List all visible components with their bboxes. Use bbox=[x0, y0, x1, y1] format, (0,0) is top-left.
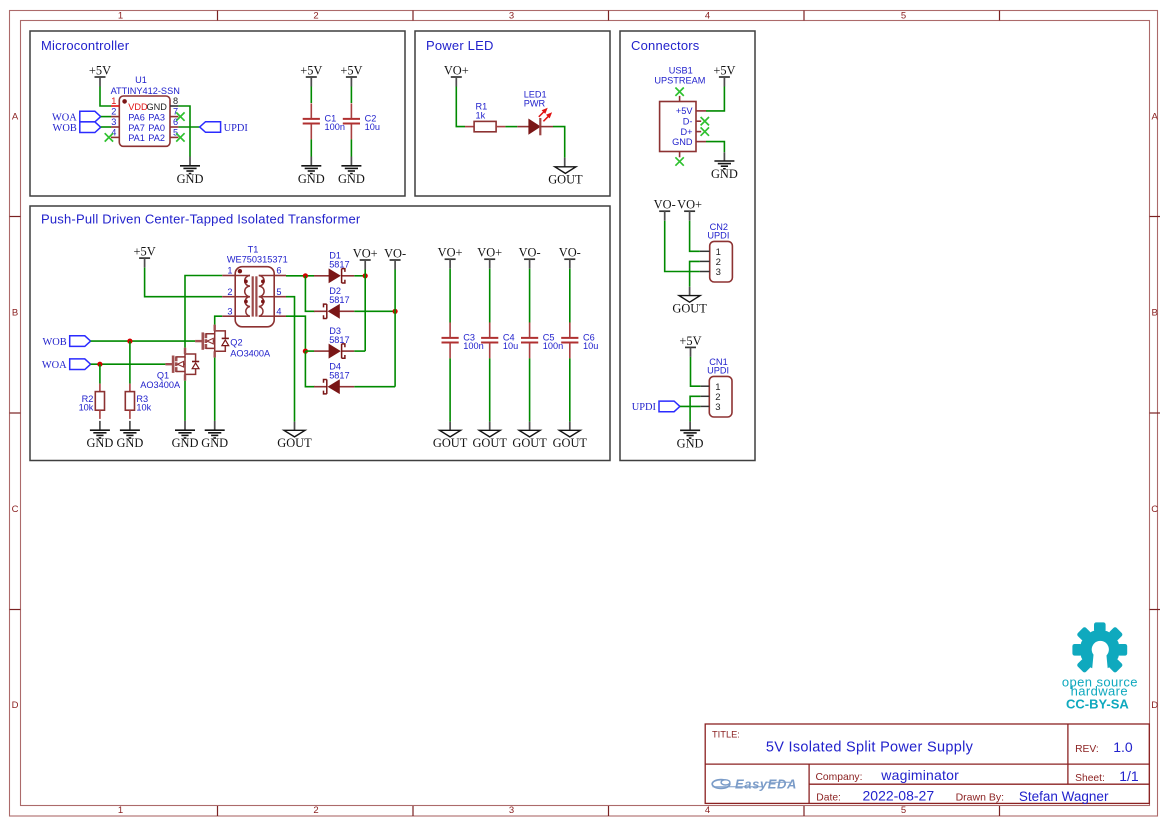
svg-text:VO+: VO+ bbox=[438, 246, 463, 260]
svg-text:Sheet:: Sheet: bbox=[1075, 773, 1105, 784]
wire +5V to CN1 pin 1 bbox=[691, 357, 701, 386]
svg-text:GOUT: GOUT bbox=[277, 436, 312, 450]
diode D1 5817 bbox=[314, 251, 354, 283]
svg-text:C: C bbox=[12, 504, 19, 515]
svg-text:VO+: VO+ bbox=[353, 247, 378, 261]
power VO- (C5) bbox=[519, 246, 541, 269]
T1 pin 4 lead bbox=[274, 315, 286, 317]
port UPDI bbox=[200, 122, 249, 134]
GND stub (R2) bbox=[99, 421, 101, 430]
GOUT stub (LED) bbox=[564, 158, 566, 167]
svg-text:wagiminator: wagiminator bbox=[880, 767, 959, 783]
svg-text:D: D bbox=[12, 700, 19, 711]
svg-text:5: 5 bbox=[276, 287, 281, 297]
svg-text:8: 8 bbox=[173, 96, 178, 106]
power +5V (C1) bbox=[300, 64, 322, 87]
junction D1 cathode / VO+ rail bbox=[363, 273, 368, 278]
wire Q2 source to GND bbox=[214, 358, 216, 421]
svg-text:PA2: PA2 bbox=[148, 133, 165, 143]
wire D3 branch down to D4 cathode bbox=[305, 351, 314, 387]
svg-text:GOUT: GOUT bbox=[548, 173, 583, 187]
LED LED1 PWR bbox=[517, 90, 553, 136]
svg-text:3: 3 bbox=[111, 117, 116, 127]
T1 pin 5 lead bbox=[274, 296, 286, 298]
Microcontroller section box bbox=[30, 31, 405, 196]
svg-text:5817: 5817 bbox=[329, 335, 349, 345]
wire VO+ to R1 bbox=[456, 87, 465, 127]
port WOB bbox=[53, 122, 101, 134]
svg-text:GOUT: GOUT bbox=[512, 436, 547, 450]
svg-text:2: 2 bbox=[313, 805, 318, 816]
svg-text:10k: 10k bbox=[136, 402, 151, 412]
power +5V (CN1) bbox=[679, 334, 701, 357]
svg-text:5817: 5817 bbox=[329, 371, 349, 381]
diode D4 5817 bbox=[314, 362, 354, 394]
wire C2 to GND bbox=[350, 139, 352, 156]
svg-text:WOA: WOA bbox=[42, 360, 67, 371]
svg-text:100n: 100n bbox=[543, 341, 563, 351]
CN1 pin 3 lead bbox=[700, 405, 709, 407]
svg-text:+5V: +5V bbox=[300, 64, 322, 78]
svg-text:Date:: Date: bbox=[816, 792, 841, 803]
U1 pin 6 lead bbox=[170, 126, 178, 128]
svg-text:5: 5 bbox=[901, 11, 906, 22]
svg-text:Push-Pull Driven Center-Tapped: Push-Pull Driven Center-Tapped Isolated … bbox=[41, 211, 361, 226]
ruler tick right bbox=[1150, 216, 1161, 218]
ruler tick bottom bbox=[217, 806, 219, 816]
svg-text:GND: GND bbox=[86, 436, 113, 450]
ruler tick bottom bbox=[608, 806, 610, 816]
wire T1 pin 5 to GOUT bbox=[286, 297, 295, 422]
svg-text:3: 3 bbox=[716, 267, 721, 278]
svg-text:Q1: Q1 bbox=[157, 370, 169, 380]
wire C5 to GOUT bbox=[529, 358, 531, 421]
svg-text:GND: GND bbox=[201, 436, 228, 450]
svg-text:4: 4 bbox=[276, 306, 281, 316]
svg-text:PWR: PWR bbox=[524, 99, 546, 109]
power +5V (USB1) bbox=[713, 64, 735, 87]
wire VO+ to CN2 pin 1 bbox=[690, 221, 700, 252]
svg-text:+5V: +5V bbox=[89, 64, 111, 78]
svg-text:GND: GND bbox=[677, 436, 704, 450]
svg-text:GND: GND bbox=[672, 137, 693, 147]
U1 pin 8 lead bbox=[170, 105, 178, 107]
svg-text:D+: D+ bbox=[680, 127, 692, 137]
transistor Q2 AO3400A bbox=[195, 325, 271, 359]
wire WOA to Q1 gate bbox=[91, 363, 166, 365]
ruler tick top bbox=[608, 11, 610, 21]
svg-text:+5V: +5V bbox=[134, 245, 156, 259]
capacitor C2 10u bbox=[343, 103, 380, 139]
GOUT power symbol (C5) bbox=[512, 430, 547, 450]
wire T1 pin 6 to D1 anode bbox=[286, 275, 314, 277]
ruler tick bottom bbox=[999, 806, 1001, 816]
power +5V (U1) bbox=[89, 64, 111, 87]
GOUT power symbol (CN2) bbox=[672, 296, 707, 316]
svg-text:B: B bbox=[1152, 308, 1158, 319]
svg-text:USB1: USB1 bbox=[669, 65, 693, 75]
GOUT stub (C4) bbox=[489, 422, 491, 431]
junction D2 anode / VO- rail bbox=[393, 309, 398, 314]
no-connect USB1 D+ bbox=[701, 127, 709, 135]
junction T1 pin4 / D3 / D4 branch bbox=[303, 349, 308, 354]
transformer T1 WE750315371 bbox=[227, 245, 288, 327]
svg-text:EasyEDA: EasyEDA bbox=[735, 777, 797, 792]
USB1 +5V pin lead bbox=[696, 110, 706, 112]
junction WOA / R2 bbox=[97, 362, 102, 367]
svg-text:10k: 10k bbox=[79, 402, 94, 412]
Push-Pull section box bbox=[30, 206, 610, 461]
svg-text:10u: 10u bbox=[365, 122, 380, 132]
svg-text:10u: 10u bbox=[503, 341, 518, 351]
GND stub (USB1) bbox=[723, 152, 725, 161]
svg-text:D: D bbox=[1151, 700, 1158, 711]
GOUT power symbol (C4) bbox=[472, 430, 507, 450]
wire VO+ to C4 bbox=[489, 269, 491, 323]
ruler tick right bbox=[1150, 412, 1161, 414]
port UPDI (CN1) bbox=[632, 401, 680, 413]
power VO- (CN2) bbox=[654, 198, 676, 221]
wire VO- to C5 bbox=[529, 269, 531, 323]
svg-text:GOUT: GOUT bbox=[553, 436, 588, 450]
capacitor C1 100n bbox=[303, 103, 345, 139]
no-connect USB1 shield top bbox=[675, 88, 683, 96]
USB1 bottom shield lead bbox=[679, 152, 681, 158]
wire D1 branch down to D2 cathode bbox=[305, 276, 314, 312]
ruler tick top bbox=[217, 11, 219, 21]
wire VO+ to C3 bbox=[449, 269, 451, 323]
ruler tick left bbox=[10, 609, 21, 611]
svg-text:Company:: Company: bbox=[816, 772, 863, 783]
wire U1 pin 6 to UPDI port bbox=[178, 126, 199, 128]
svg-text:1: 1 bbox=[227, 266, 232, 276]
wire +5V to U1 pin 1 bbox=[100, 87, 111, 107]
ground (CN1) bbox=[677, 430, 704, 450]
svg-text:1: 1 bbox=[111, 96, 116, 106]
wire WOB junction down to R3 bbox=[129, 341, 131, 384]
wire WOA to U1 pin 2 bbox=[101, 116, 111, 118]
port WOB (pushpull) bbox=[42, 336, 90, 348]
svg-text:REV:: REV: bbox=[1075, 744, 1099, 755]
ruler tick right bbox=[1150, 609, 1161, 611]
svg-text:PA1: PA1 bbox=[128, 133, 145, 143]
wire D4 anode to VO- rail end bbox=[354, 386, 395, 388]
wire T1 pin 3 to Q2 drain bbox=[215, 316, 223, 324]
ruler tick left bbox=[10, 216, 21, 218]
svg-text:UPDI: UPDI bbox=[707, 231, 729, 241]
wire LED1 to GOUT bbox=[553, 127, 565, 158]
wire VO- to C6 bbox=[569, 269, 571, 323]
connector CN1 UPDI bbox=[707, 357, 732, 417]
wire C4 to GOUT bbox=[489, 358, 491, 421]
svg-text:TITLE:: TITLE: bbox=[712, 729, 740, 739]
USB1 GND pin lead bbox=[696, 141, 706, 143]
wire to D3 anode bbox=[305, 350, 314, 352]
ground (U1) bbox=[177, 166, 204, 186]
svg-text:AO3400A: AO3400A bbox=[140, 380, 181, 390]
svg-text:4: 4 bbox=[705, 11, 710, 22]
power VO- (C6) bbox=[559, 246, 581, 269]
wire VO- to CN2 pin 3 bbox=[665, 221, 700, 272]
wire CN2 pin 2 to GOUT bbox=[690, 261, 700, 286]
U1 pin 4 lead bbox=[111, 136, 119, 138]
ruler tick top bbox=[803, 11, 805, 21]
svg-text:2022-08-27: 2022-08-27 bbox=[863, 788, 935, 804]
wire D3 cathode to VO+ rail end bbox=[354, 350, 365, 352]
svg-text:5817: 5817 bbox=[329, 295, 349, 305]
svg-text:GND: GND bbox=[338, 172, 365, 186]
connector CN2 UPDI bbox=[707, 222, 732, 282]
USB1 shield pin lead bbox=[679, 96, 681, 102]
ground (Q1) bbox=[172, 430, 199, 450]
ground (R2) bbox=[86, 430, 113, 450]
svg-text:VO-: VO- bbox=[654, 198, 676, 212]
ground (C1) bbox=[298, 166, 325, 186]
capacitor C6 10u bbox=[561, 322, 598, 358]
wire +5V to C2 bbox=[350, 87, 352, 104]
CN2 pin 2 lead bbox=[700, 260, 710, 262]
GND stub (C1) bbox=[310, 157, 312, 166]
svg-text:GOUT: GOUT bbox=[472, 436, 507, 450]
GOUT stub (C5) bbox=[529, 422, 531, 431]
wire +5V to C1 bbox=[310, 87, 312, 104]
GOUT stub (T1 center tap) bbox=[294, 422, 296, 431]
svg-text:GOUT: GOUT bbox=[433, 436, 468, 450]
svg-text:1: 1 bbox=[118, 11, 123, 22]
svg-text:GND: GND bbox=[147, 102, 168, 112]
capacitor C3 100n bbox=[442, 322, 484, 358]
svg-text:GOUT: GOUT bbox=[672, 301, 707, 315]
power VO+ (CN2) bbox=[677, 198, 702, 221]
power +5V (T1) bbox=[134, 245, 156, 268]
wire R1 to LED1 bbox=[505, 126, 517, 128]
CN2 pin 1 lead bbox=[700, 250, 710, 252]
svg-text:5V Isolated Split Power Supply: 5V Isolated Split Power Supply bbox=[766, 740, 974, 756]
GND stub (CN1) bbox=[689, 422, 691, 431]
wire CN1 pin 2 to GND bbox=[690, 396, 700, 421]
T1 pin 2 lead bbox=[222, 296, 235, 298]
title block frame bbox=[705, 724, 1149, 803]
T1 pin 3 lead bbox=[222, 315, 235, 317]
GND stub (R3) bbox=[129, 421, 131, 430]
svg-text:UPDI: UPDI bbox=[224, 123, 249, 134]
svg-text:C: C bbox=[1151, 504, 1158, 515]
diode D2 5817 bbox=[314, 286, 354, 318]
T1 pin 6 lead bbox=[274, 275, 286, 277]
port WOA (pushpull) bbox=[42, 359, 91, 371]
GOUT power symbol (LED) bbox=[548, 167, 583, 187]
wire D1 cathode to VO+ bbox=[354, 275, 365, 277]
svg-text:6: 6 bbox=[173, 117, 178, 127]
svg-text:WE750315371: WE750315371 bbox=[227, 255, 288, 265]
svg-text:WOA: WOA bbox=[52, 112, 77, 123]
svg-text:Microcontroller: Microcontroller bbox=[41, 38, 130, 53]
CN2 pin 3 lead bbox=[700, 271, 710, 273]
resistor R2 10k bbox=[79, 384, 105, 419]
svg-text:100n: 100n bbox=[325, 122, 345, 132]
svg-text:CC-BY-SA: CC-BY-SA bbox=[1066, 697, 1129, 712]
svg-text:GND: GND bbox=[116, 436, 143, 450]
ruler tick top bbox=[412, 11, 414, 21]
svg-text:1.0: 1.0 bbox=[1113, 739, 1133, 755]
svg-text:Drawn By:: Drawn By: bbox=[956, 791, 1004, 803]
svg-text:1k: 1k bbox=[476, 111, 486, 121]
wire USB1 GND pin to GND bbox=[706, 142, 724, 153]
GOUT stub (C6) bbox=[569, 422, 571, 431]
svg-text:Power LED: Power LED bbox=[426, 38, 494, 53]
USB1 D- pin lead bbox=[696, 120, 701, 122]
CN1 pin 2 lead bbox=[700, 395, 709, 397]
svg-text:UPSTREAM: UPSTREAM bbox=[654, 75, 705, 85]
GOUT stub (C3) bbox=[449, 422, 451, 431]
svg-text:2: 2 bbox=[313, 11, 318, 22]
svg-text:+5V: +5V bbox=[676, 106, 693, 116]
U1 pin 2 lead bbox=[111, 116, 119, 118]
no-connect U1 pin 7 bbox=[176, 112, 184, 120]
resistor R3 10k bbox=[125, 384, 151, 419]
wire T1 pin 1 to Q1 drain bbox=[185, 276, 222, 348]
svg-text:7: 7 bbox=[173, 107, 178, 117]
svg-text:D-: D- bbox=[683, 117, 693, 127]
svg-text:PA7: PA7 bbox=[128, 123, 145, 133]
Power LED section box bbox=[415, 31, 610, 196]
diode D3 5817 bbox=[314, 326, 354, 358]
svg-text:3: 3 bbox=[715, 402, 720, 413]
wire C3 to GOUT bbox=[449, 358, 451, 421]
U1 pin 1 lead bbox=[111, 105, 119, 107]
svg-text:Q2: Q2 bbox=[230, 337, 242, 347]
ground (USB1) bbox=[711, 161, 738, 181]
MCU U1 ATTINY412-SSN bbox=[111, 75, 180, 146]
svg-text:5: 5 bbox=[901, 805, 906, 816]
svg-text:WOB: WOB bbox=[42, 337, 66, 348]
ruler tick bottom bbox=[412, 806, 414, 816]
U1 pin 5 lead bbox=[170, 136, 178, 138]
wire VO- rail vertical bbox=[394, 270, 396, 387]
ruler tick top bbox=[999, 11, 1001, 21]
GOUT power symbol (T1) bbox=[277, 430, 312, 450]
T1 pin 1 lead bbox=[222, 275, 235, 277]
svg-text:10u: 10u bbox=[583, 341, 598, 351]
capacitor C5 100n bbox=[521, 322, 563, 358]
USB1 D+ pin lead bbox=[696, 131, 701, 133]
GND stub (U1) bbox=[189, 157, 191, 166]
svg-text:WOB: WOB bbox=[53, 123, 77, 134]
wire WOB to Q2 gate bbox=[91, 340, 196, 342]
resistor R1 1k bbox=[465, 101, 505, 132]
GND stub (Q1) bbox=[184, 421, 186, 430]
no-connect U1 pin 4 bbox=[105, 133, 113, 141]
power VO+ (diodes) bbox=[353, 247, 378, 270]
svg-text:AO3400A: AO3400A bbox=[230, 348, 271, 358]
wire WOA junction down to R2 bbox=[99, 364, 101, 383]
power VO- (diodes) bbox=[384, 247, 406, 270]
wire Q1 source to GND bbox=[184, 381, 186, 421]
svg-text:PA6: PA6 bbox=[128, 112, 145, 122]
ruler tick left bbox=[10, 412, 21, 414]
wire WOB to U1 pin 3 bbox=[101, 126, 111, 128]
no-connect USB1 D- bbox=[701, 117, 709, 125]
transistor Q1 AO3400A bbox=[140, 348, 199, 390]
svg-text:100n: 100n bbox=[463, 341, 483, 351]
svg-text:VO-: VO- bbox=[384, 247, 406, 261]
svg-text:VO+: VO+ bbox=[444, 64, 469, 78]
svg-text:GND: GND bbox=[177, 172, 204, 186]
svg-text:VO-: VO- bbox=[559, 246, 581, 260]
svg-text:5: 5 bbox=[173, 127, 178, 137]
junction T1 pin6 / D1 / D2 branch bbox=[303, 273, 308, 278]
svg-text:3: 3 bbox=[509, 11, 514, 22]
wire T1 pin 4 to D3 anode bbox=[286, 316, 305, 351]
svg-text:GND: GND bbox=[298, 172, 325, 186]
svg-text:PA0: PA0 bbox=[148, 123, 165, 133]
svg-text:Stefan Wagner: Stefan Wagner bbox=[1019, 789, 1109, 804]
ground (R3) bbox=[116, 430, 143, 450]
svg-text:+5V: +5V bbox=[340, 64, 362, 78]
svg-text:3: 3 bbox=[227, 306, 232, 316]
CN1 pin 1 lead bbox=[700, 385, 709, 387]
svg-text:+5V: +5V bbox=[679, 334, 701, 348]
junction WOB / R3 bbox=[127, 339, 132, 344]
svg-text:U1: U1 bbox=[135, 75, 147, 85]
power VO+ (LED) bbox=[444, 64, 469, 87]
port WOA bbox=[52, 111, 101, 123]
wire C1 to GND bbox=[310, 139, 312, 156]
svg-text:PA3: PA3 bbox=[148, 112, 165, 122]
wire UPDI port to CN1 pin 3 bbox=[680, 405, 700, 407]
svg-text:UPDI: UPDI bbox=[707, 366, 729, 376]
svg-text:4: 4 bbox=[705, 805, 710, 816]
svg-text:VO+: VO+ bbox=[677, 198, 702, 212]
wire D2 anode to VO- rail bbox=[354, 310, 395, 312]
svg-text:+5V: +5V bbox=[713, 64, 735, 78]
svg-text:Connectors: Connectors bbox=[631, 38, 700, 53]
wire VO+ rail vertical bbox=[364, 270, 366, 352]
svg-text:UPDI: UPDI bbox=[632, 402, 657, 413]
wire USB1 +5V pin to +5V bbox=[706, 87, 724, 111]
wire C6 to GOUT bbox=[569, 358, 571, 421]
svg-text:3: 3 bbox=[509, 805, 514, 816]
GOUT power symbol (C3) bbox=[433, 430, 468, 450]
svg-text:2: 2 bbox=[111, 107, 116, 117]
U1 pin 3 lead bbox=[111, 126, 119, 128]
svg-text:6: 6 bbox=[276, 266, 281, 276]
GND stub (C2) bbox=[350, 157, 352, 166]
svg-text:VDD: VDD bbox=[128, 102, 148, 112]
no-connect U1 pin 5 bbox=[176, 133, 184, 141]
power VO+ (C4) bbox=[477, 246, 502, 269]
svg-text:B: B bbox=[12, 308, 18, 319]
svg-text:GND: GND bbox=[172, 436, 199, 450]
svg-text:T1: T1 bbox=[248, 245, 259, 255]
svg-text:VO-: VO- bbox=[519, 246, 541, 260]
svg-text:5817: 5817 bbox=[329, 260, 349, 270]
power +5V (C2) bbox=[340, 64, 362, 87]
wire U1 pin 8 to GND bbox=[178, 106, 190, 157]
EasyEDA logo bbox=[712, 777, 797, 792]
svg-text:A: A bbox=[12, 112, 19, 123]
GND stub (Q2) bbox=[214, 421, 216, 430]
GOUT power symbol (C6) bbox=[553, 430, 588, 450]
capacitor C4 10u bbox=[481, 322, 518, 358]
power VO+ (C3) bbox=[438, 246, 463, 269]
open source hardware logo bbox=[1062, 622, 1138, 711]
wire +5V to T1 pin 2 bbox=[145, 268, 223, 297]
ruler tick bottom bbox=[803, 806, 805, 816]
svg-text:1: 1 bbox=[118, 805, 123, 816]
ground (Q2) bbox=[201, 430, 228, 450]
svg-text:ATTINY412-SSN: ATTINY412-SSN bbox=[111, 86, 180, 96]
